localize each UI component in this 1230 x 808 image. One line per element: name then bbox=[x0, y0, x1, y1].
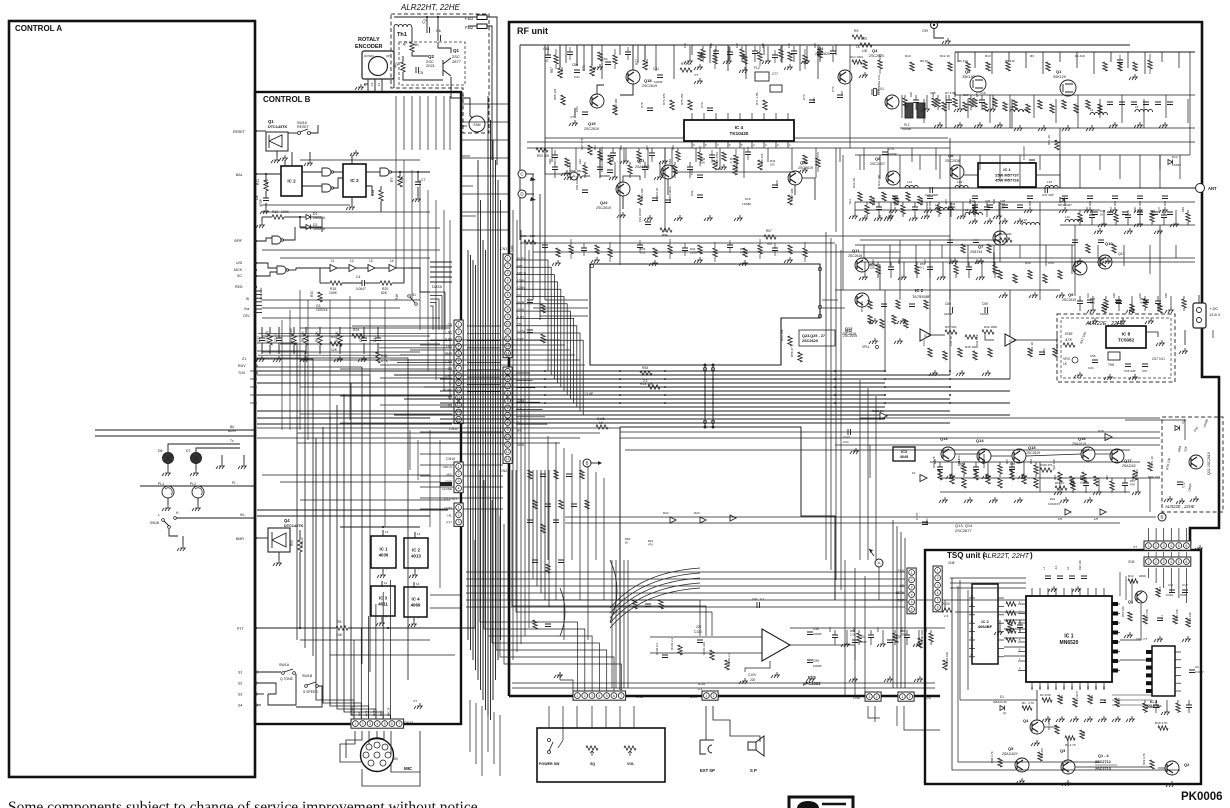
resistor bbox=[953, 98, 957, 107]
ground bbox=[921, 106, 930, 112]
wire bbox=[625, 148, 627, 158]
svg-text:IC 2: IC 2 bbox=[287, 179, 296, 184]
wire bbox=[935, 148, 937, 170]
capacitor bbox=[687, 167, 693, 170]
ground bbox=[1164, 496, 1173, 502]
svg-text:Q3: Q3 bbox=[1060, 748, 1066, 753]
resistor bbox=[608, 155, 612, 165]
svg-text:Q12: Q12 bbox=[845, 329, 852, 333]
ground bbox=[569, 120, 578, 126]
resistor bbox=[928, 348, 932, 357]
svg-text:Q4: Q4 bbox=[872, 48, 878, 53]
IC bbox=[1106, 326, 1146, 348]
svg-text:12K: 12K bbox=[331, 348, 338, 352]
svg-text:R9 470: R9 470 bbox=[1040, 748, 1044, 757]
wire bbox=[467, 391, 500, 393]
wire bbox=[962, 202, 964, 213]
resistor bbox=[338, 334, 342, 345]
capacitor bbox=[987, 205, 993, 208]
svg-text:R70: R70 bbox=[975, 92, 979, 97]
wire bundle CN2 to CN5 bbox=[480, 470, 578, 670]
wire bbox=[466, 585, 537, 587]
wire bbox=[257, 359, 313, 656]
IC bbox=[1026, 596, 1112, 682]
resistor bbox=[628, 165, 632, 174]
wire bbox=[547, 45, 549, 55]
wire bbox=[839, 148, 841, 162]
svg-text:MIC: MIC bbox=[517, 264, 524, 268]
resistor bbox=[987, 244, 991, 253]
svg-text:DATA: DATA bbox=[432, 284, 442, 289]
fet Q1 3SK129 bbox=[1060, 80, 1076, 96]
ground bbox=[849, 213, 858, 219]
wire bbox=[941, 245, 943, 258]
wire into dash2 bbox=[1125, 419, 1185, 421]
wire tsq internals bbox=[955, 599, 1026, 601]
svg-text:F2: F2 bbox=[370, 82, 374, 86]
svg-text:S3: S3 bbox=[238, 693, 242, 697]
capacitor bbox=[1122, 212, 1128, 215]
wire bbox=[599, 148, 601, 178]
svg-text:RED: RED bbox=[235, 285, 243, 289]
inductor bbox=[1022, 222, 1040, 225]
wire bbox=[781, 45, 783, 63]
wire bbox=[1137, 478, 1139, 489]
resistor bbox=[1082, 472, 1086, 482]
wire bbox=[555, 442, 557, 600]
ground bbox=[914, 676, 923, 682]
wire bbox=[257, 343, 297, 640]
ground bbox=[884, 676, 893, 682]
svg-text:BMR: BMR bbox=[236, 537, 244, 541]
capacitor bbox=[1177, 482, 1183, 485]
wire bus channel vertical between CONTROL B and RF bbox=[467, 250, 469, 640]
svg-text:2S8744: 2S8744 bbox=[970, 250, 982, 254]
svg-text:R42: R42 bbox=[593, 145, 597, 150]
svg-text:Q5: Q5 bbox=[1008, 746, 1014, 751]
resistor bbox=[945, 330, 957, 334]
svg-text:R77: R77 bbox=[635, 59, 639, 65]
wire channel crossings to RF left bbox=[461, 103, 509, 105]
resistor bbox=[633, 600, 637, 609]
svg-text:10: 10 bbox=[457, 388, 461, 392]
ground bbox=[554, 672, 563, 678]
resistor bbox=[1038, 752, 1042, 761]
svg-text:S/RF: S/RF bbox=[234, 239, 243, 243]
svg-text:5: 5 bbox=[507, 286, 509, 290]
svg-text:R43 10K: R43 10K bbox=[780, 329, 784, 341]
svg-text:CN8: CN8 bbox=[948, 561, 955, 565]
resistor bbox=[710, 650, 714, 660]
svg-text:W: W bbox=[246, 297, 249, 301]
svg-text:TK10420: TK10420 bbox=[730, 131, 749, 136]
resistor bbox=[863, 60, 867, 69]
capacitor bbox=[375, 338, 381, 341]
svg-text:1: 1 bbox=[355, 722, 357, 726]
svg-text:RUV: RUV bbox=[238, 364, 246, 368]
svg-text:PTT: PTT bbox=[365, 710, 369, 716]
resistor bbox=[1055, 725, 1059, 734]
svg-text:R84: R84 bbox=[968, 199, 972, 204]
resistor bbox=[986, 474, 990, 484]
wire bus lower rows bbox=[257, 427, 620, 429]
wire bbox=[1025, 52, 1027, 68]
resistor bbox=[986, 62, 990, 71]
wire bbox=[257, 351, 305, 648]
wire bbox=[565, 516, 1156, 518]
svg-text:2SC2619: 2SC2619 bbox=[584, 127, 599, 131]
capacitor bbox=[1087, 196, 1093, 199]
svg-text:TUV: TUV bbox=[238, 371, 246, 375]
connector bbox=[1144, 557, 1191, 566]
svg-text:2.2: 2.2 bbox=[698, 687, 703, 691]
resistor bbox=[528, 470, 532, 479]
resistor bbox=[380, 281, 392, 285]
capacitor bbox=[947, 240, 953, 243]
ground bbox=[1098, 221, 1107, 227]
ground bbox=[334, 356, 343, 362]
svg-text:2SC2619: 2SC2619 bbox=[843, 334, 857, 338]
wire Q2 base bbox=[412, 52, 428, 56]
svg-text:CSV: CSV bbox=[243, 314, 250, 318]
wire right bundle vertical bbox=[825, 232, 827, 560]
svg-text:3SK192: 3SK192 bbox=[962, 75, 975, 79]
resistor bbox=[882, 192, 886, 201]
wire bbox=[864, 262, 866, 274]
wire bbox=[379, 347, 452, 349]
svg-text:C74: C74 bbox=[831, 86, 835, 92]
ground bbox=[1014, 218, 1023, 224]
ground bbox=[975, 258, 984, 264]
svg-text:R28: R28 bbox=[872, 199, 876, 204]
svg-text:PL1: PL1 bbox=[158, 482, 164, 486]
svg-text:14: 14 bbox=[390, 259, 394, 263]
connector bbox=[907, 568, 916, 614]
svg-text:4.7K: 4.7K bbox=[1028, 701, 1034, 705]
svg-text:4064BF: 4064BF bbox=[978, 624, 993, 629]
wire bbox=[1008, 52, 1010, 62]
resistor bbox=[1058, 270, 1062, 279]
svg-text:R22 22K: R22 22K bbox=[1188, 612, 1192, 623]
svg-text:Q4: Q4 bbox=[1023, 718, 1029, 723]
svg-text:CONTROL A: CONTROL A bbox=[15, 24, 62, 33]
wire bbox=[923, 99, 925, 123]
wire drop to CN13 bbox=[351, 383, 391, 719]
resistor bbox=[942, 102, 946, 111]
wire bbox=[481, 706, 483, 776]
svg-text:11: 11 bbox=[331, 259, 335, 263]
gate bbox=[380, 168, 389, 176]
inductor bbox=[905, 185, 918, 188]
svg-text:100: 100 bbox=[862, 49, 868, 53]
wire bbox=[370, 340, 452, 342]
svg-text:C57 0.01: C57 0.01 bbox=[1152, 357, 1165, 361]
wire bbox=[637, 45, 639, 63]
capacitor bbox=[950, 307, 953, 313]
capacitor bbox=[415, 182, 421, 185]
capacitor bbox=[882, 152, 888, 155]
wire rail bbox=[855, 209, 1100, 211]
svg-text:1: 1 bbox=[902, 695, 904, 699]
wire bbox=[1092, 296, 1094, 307]
svg-text:12: 12 bbox=[506, 450, 510, 454]
svg-text:100: 100 bbox=[770, 162, 775, 166]
ground bbox=[1165, 307, 1174, 313]
capacitor bbox=[1039, 352, 1045, 355]
svg-text:MCK: MCK bbox=[234, 268, 243, 272]
capacitor bbox=[979, 100, 985, 103]
wire bbox=[262, 317, 440, 319]
resistor bbox=[998, 478, 1002, 488]
capacitor bbox=[610, 153, 616, 156]
wire buffer chain bbox=[296, 268, 330, 270]
svg-text:C100: C100 bbox=[748, 673, 756, 677]
svg-text:DTC143TK: DTC143TK bbox=[284, 524, 303, 528]
wire bbox=[959, 155, 961, 188]
svg-text:2SC2620: 2SC2620 bbox=[869, 54, 884, 58]
ground bbox=[358, 356, 367, 362]
resistor bbox=[982, 330, 994, 334]
resistor bbox=[698, 152, 702, 161]
wire bbox=[1187, 99, 1189, 123]
svg-text:4030: 4030 bbox=[379, 552, 389, 557]
ground bbox=[957, 213, 966, 219]
resistor bbox=[950, 474, 954, 484]
wire bbox=[1175, 210, 1177, 221]
ground bbox=[1132, 489, 1141, 495]
svg-text:R84: R84 bbox=[924, 627, 928, 632]
svg-text:2SC2407: 2SC2407 bbox=[870, 162, 885, 166]
wire bbox=[443, 210, 445, 390]
svg-text:R14: R14 bbox=[1053, 475, 1057, 480]
capacitor bbox=[1143, 300, 1149, 303]
svg-text:R10: R10 bbox=[1090, 694, 1094, 700]
svg-text:3: 3 bbox=[591, 694, 593, 698]
svg-text:SW1B: SW1B bbox=[150, 521, 159, 525]
resistor bbox=[304, 334, 308, 345]
svg-text:R88 470K: R88 470K bbox=[715, 152, 719, 165]
ground bbox=[954, 122, 963, 128]
ground bbox=[999, 292, 1008, 298]
svg-text:Tx: Tx bbox=[230, 439, 234, 443]
capacitor bbox=[1182, 590, 1188, 593]
resistor bbox=[613, 55, 617, 64]
svg-text:13.8V: 13.8V bbox=[444, 506, 452, 510]
wire bbox=[493, 712, 495, 764]
transistor bbox=[616, 182, 630, 196]
svg-text:33P: 33P bbox=[840, 91, 844, 96]
transistor bbox=[1135, 591, 1147, 603]
resistor bbox=[993, 98, 997, 107]
IC bbox=[978, 163, 1036, 187]
ground bbox=[1154, 636, 1163, 642]
svg-text:3: 3 bbox=[458, 337, 460, 341]
wire bbox=[903, 262, 905, 274]
ground bbox=[964, 497, 973, 503]
svg-text:D21: D21 bbox=[1050, 497, 1056, 501]
resistor bbox=[852, 35, 864, 39]
ground bbox=[1072, 586, 1081, 592]
svg-text:4: 4 bbox=[376, 722, 378, 726]
resistor bbox=[554, 55, 558, 64]
capacitor bbox=[1153, 705, 1159, 708]
svg-text:CN2: CN2 bbox=[500, 469, 507, 473]
ground bbox=[256, 356, 265, 362]
wire bbox=[565, 45, 567, 63]
ground bbox=[162, 470, 171, 476]
svg-text:TSQ unit (: TSQ unit ( bbox=[947, 551, 986, 560]
wire bbox=[430, 303, 436, 331]
svg-text:R57: R57 bbox=[766, 229, 772, 233]
svg-text:GBA24 2F: GBA24 2F bbox=[993, 700, 1007, 704]
ground bbox=[739, 678, 748, 684]
wire bbox=[587, 466, 589, 640]
svg-text:21.945MHz 0.01: 21.945MHz 0.01 bbox=[877, 74, 881, 95]
resistor bbox=[698, 52, 702, 61]
resistor bbox=[379, 190, 383, 201]
wire bbox=[262, 204, 350, 206]
svg-text:R42: R42 bbox=[1109, 207, 1113, 212]
wire bbox=[1019, 155, 1021, 188]
CN5 pin top stubs bbox=[577, 670, 579, 691]
wire cn9 into tsq bbox=[1148, 568, 1150, 578]
svg-text:3: 3 bbox=[507, 271, 509, 275]
wire bbox=[1076, 52, 1078, 68]
svg-text:H/L: H/L bbox=[240, 513, 245, 517]
svg-text:MIC.G: MIC.G bbox=[443, 465, 452, 469]
ground bbox=[1170, 221, 1179, 227]
ground bbox=[718, 164, 727, 170]
wire bbox=[1098, 478, 1100, 489]
capacitor bbox=[1092, 212, 1098, 215]
resistor bbox=[1028, 348, 1032, 357]
wire drop to CN13 bbox=[323, 427, 361, 719]
svg-text:ALR22E , 22HE: ALR22E , 22HE bbox=[1164, 504, 1195, 509]
svg-text:6: 6 bbox=[507, 293, 509, 297]
svg-text:R70: R70 bbox=[645, 145, 649, 150]
svg-text:0.0047: 0.0047 bbox=[356, 287, 366, 291]
transistor bbox=[855, 258, 869, 272]
wire bbox=[989, 95, 991, 123]
IC bbox=[404, 587, 427, 617]
svg-text:R85 104: R85 104 bbox=[553, 88, 557, 100]
ground bbox=[552, 260, 561, 266]
ground bbox=[694, 78, 703, 84]
resistor bbox=[561, 95, 565, 105]
ground bbox=[841, 641, 850, 647]
wire bbox=[516, 275, 554, 379]
svg-text:1SS86: 1SS86 bbox=[742, 202, 751, 206]
svg-text:33P: 33P bbox=[900, 632, 905, 636]
wire topright rail bbox=[955, 51, 1195, 53]
svg-text:47K: 47K bbox=[740, 250, 745, 254]
svg-text:POWER SW: POWER SW bbox=[539, 762, 560, 766]
wire bbox=[1119, 155, 1121, 179]
svg-text:C98: C98 bbox=[813, 627, 819, 631]
svg-text:R56: R56 bbox=[619, 145, 623, 150]
resistor bbox=[1173, 615, 1177, 624]
svg-text:1: 1 bbox=[1148, 560, 1150, 564]
wire bbox=[719, 148, 721, 170]
switch POWER SW bbox=[548, 739, 551, 742]
capacitor bbox=[438, 35, 441, 41]
wire bbox=[945, 95, 947, 128]
resistor bbox=[1063, 343, 1075, 347]
svg-text:10K: 10K bbox=[400, 175, 404, 182]
ground logic ICs bbox=[382, 569, 384, 572]
wire bbox=[435, 96, 437, 150]
capacitor bbox=[1100, 700, 1106, 703]
resistor bbox=[556, 248, 560, 257]
svg-text:R84: R84 bbox=[813, 43, 817, 48]
svg-text:IC 1: IC 1 bbox=[1064, 634, 1073, 640]
ground bbox=[734, 215, 743, 221]
resistor bbox=[598, 52, 602, 61]
wire bbox=[449, 96, 451, 150]
resistor bbox=[1006, 602, 1016, 606]
svg-text:C8 – /77: C8 – /77 bbox=[1136, 637, 1148, 641]
capacitor bbox=[807, 632, 813, 635]
wire bbox=[467, 369, 500, 371]
resistor bbox=[962, 478, 966, 488]
wire q1 row link bbox=[955, 94, 1195, 96]
ground bbox=[1179, 348, 1188, 354]
ground bbox=[1129, 74, 1138, 80]
wire bbox=[466, 571, 529, 573]
resistor bbox=[586, 746, 598, 750]
resistor bbox=[1058, 695, 1062, 704]
pin strip on left edge bbox=[256, 290, 262, 292]
svg-text:R54: R54 bbox=[642, 366, 648, 370]
node A bbox=[570, 172, 578, 180]
fet Q2 bbox=[970, 76, 986, 92]
resistor bbox=[880, 319, 884, 328]
svg-text:ENCODER: ENCODER bbox=[355, 44, 383, 50]
svg-text:C5: C5 bbox=[418, 70, 424, 75]
svg-text:1SS216: 1SS216 bbox=[300, 537, 304, 548]
svg-text:470P: 470P bbox=[259, 198, 263, 207]
ground bbox=[1084, 497, 1093, 503]
resistor bbox=[533, 500, 537, 509]
resistor bbox=[966, 62, 970, 71]
wire bbox=[516, 318, 574, 403]
resistor bbox=[546, 564, 550, 573]
resistor bbox=[965, 335, 977, 339]
svg-text:D23: D23 bbox=[694, 511, 700, 515]
resistor bbox=[1006, 620, 1016, 624]
TSQ unit box bbox=[925, 550, 1201, 784]
inductor bbox=[1135, 109, 1153, 112]
svg-text:R56: R56 bbox=[953, 92, 957, 97]
resistor bbox=[1026, 104, 1030, 113]
wire bbox=[516, 423, 548, 425]
wire bus risers right bbox=[884, 290, 886, 371]
capacitor bbox=[817, 52, 823, 55]
resistor bbox=[330, 342, 342, 346]
wire bbox=[691, 45, 693, 55]
capacitor bbox=[807, 660, 813, 663]
resistor bbox=[963, 102, 967, 111]
svg-text:8: 8 bbox=[458, 374, 460, 378]
wire bbox=[1112, 694, 1152, 696]
svg-text:R14: R14 bbox=[1128, 574, 1134, 578]
capacitor bbox=[1017, 625, 1023, 628]
svg-text:4: 4 bbox=[1170, 544, 1172, 548]
ground bbox=[591, 257, 600, 263]
resistor bbox=[973, 351, 977, 360]
buffer bbox=[730, 515, 736, 521]
resistor bbox=[673, 165, 677, 174]
